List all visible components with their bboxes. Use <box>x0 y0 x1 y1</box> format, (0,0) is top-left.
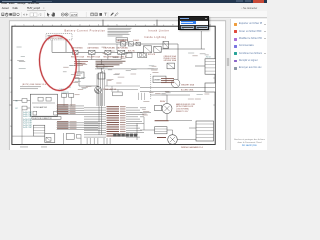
svg-text:Inside Lighting: Inside Lighting <box>144 36 167 39</box>
svg-text:BLK-YEL: BLK-YEL <box>128 50 135 52</box>
svg-text:RELAY: RELAY <box>160 100 166 103</box>
svg-text:15A FUSE AM1: 15A FUSE AM1 <box>87 46 99 49</box>
svg-text:FL AM2: FL AM2 <box>133 39 139 42</box>
svg-text:ROOM LAMP SW: ROOM LAMP SW <box>33 106 47 109</box>
svg-text:GRN-WHT 18GA: GRN-WHT 18GA <box>181 84 195 87</box>
svg-text:REFER TO 55-7: REFER TO 55-7 <box>176 111 188 113</box>
svg-text:RLY HTR: RLY HTR <box>148 54 156 56</box>
svg-text:DIMMER: DIMMER <box>154 79 162 81</box>
svg-text:WIRING DIAGRAMS 55-5: WIRING DIAGRAMS 55-5 <box>181 146 203 149</box>
svg-text:JUNCTION CONNECTOR: JUNCTION CONNECTOR <box>33 118 53 120</box>
svg-text:J/C 04: J/C 04 <box>206 57 211 59</box>
svg-text:/ 2: / 2 <box>39 14 42 17</box>
svg-text:RED-WHT 16GA: RED-WHT 16GA <box>87 56 101 59</box>
svg-text:15A FUSE AM1: 15A FUSE AM1 <box>116 46 128 49</box>
svg-text:B7: B7 <box>16 108 18 110</box>
svg-text:Battery-Current Protection: Battery-Current Protection <box>65 29 106 32</box>
svg-text:GRY-RED 18GA: GRY-RED 18GA <box>164 59 177 62</box>
svg-text:15A FUSE AM1: 15A FUSE AM1 <box>103 46 115 49</box>
svg-text:Inrush Limiter: Inrush Limiter <box>148 29 169 32</box>
svg-text:FL MAIN 2.0L: FL MAIN 2.0L <box>118 39 128 42</box>
svg-text:RED-WHT 16GA: RED-WHT 16GA <box>71 56 85 59</box>
svg-text:(NOTE) SEE PAGE 55-4: (NOTE) SEE PAGE 55-4 <box>22 83 46 86</box>
svg-text:B6: B6 <box>16 100 18 102</box>
